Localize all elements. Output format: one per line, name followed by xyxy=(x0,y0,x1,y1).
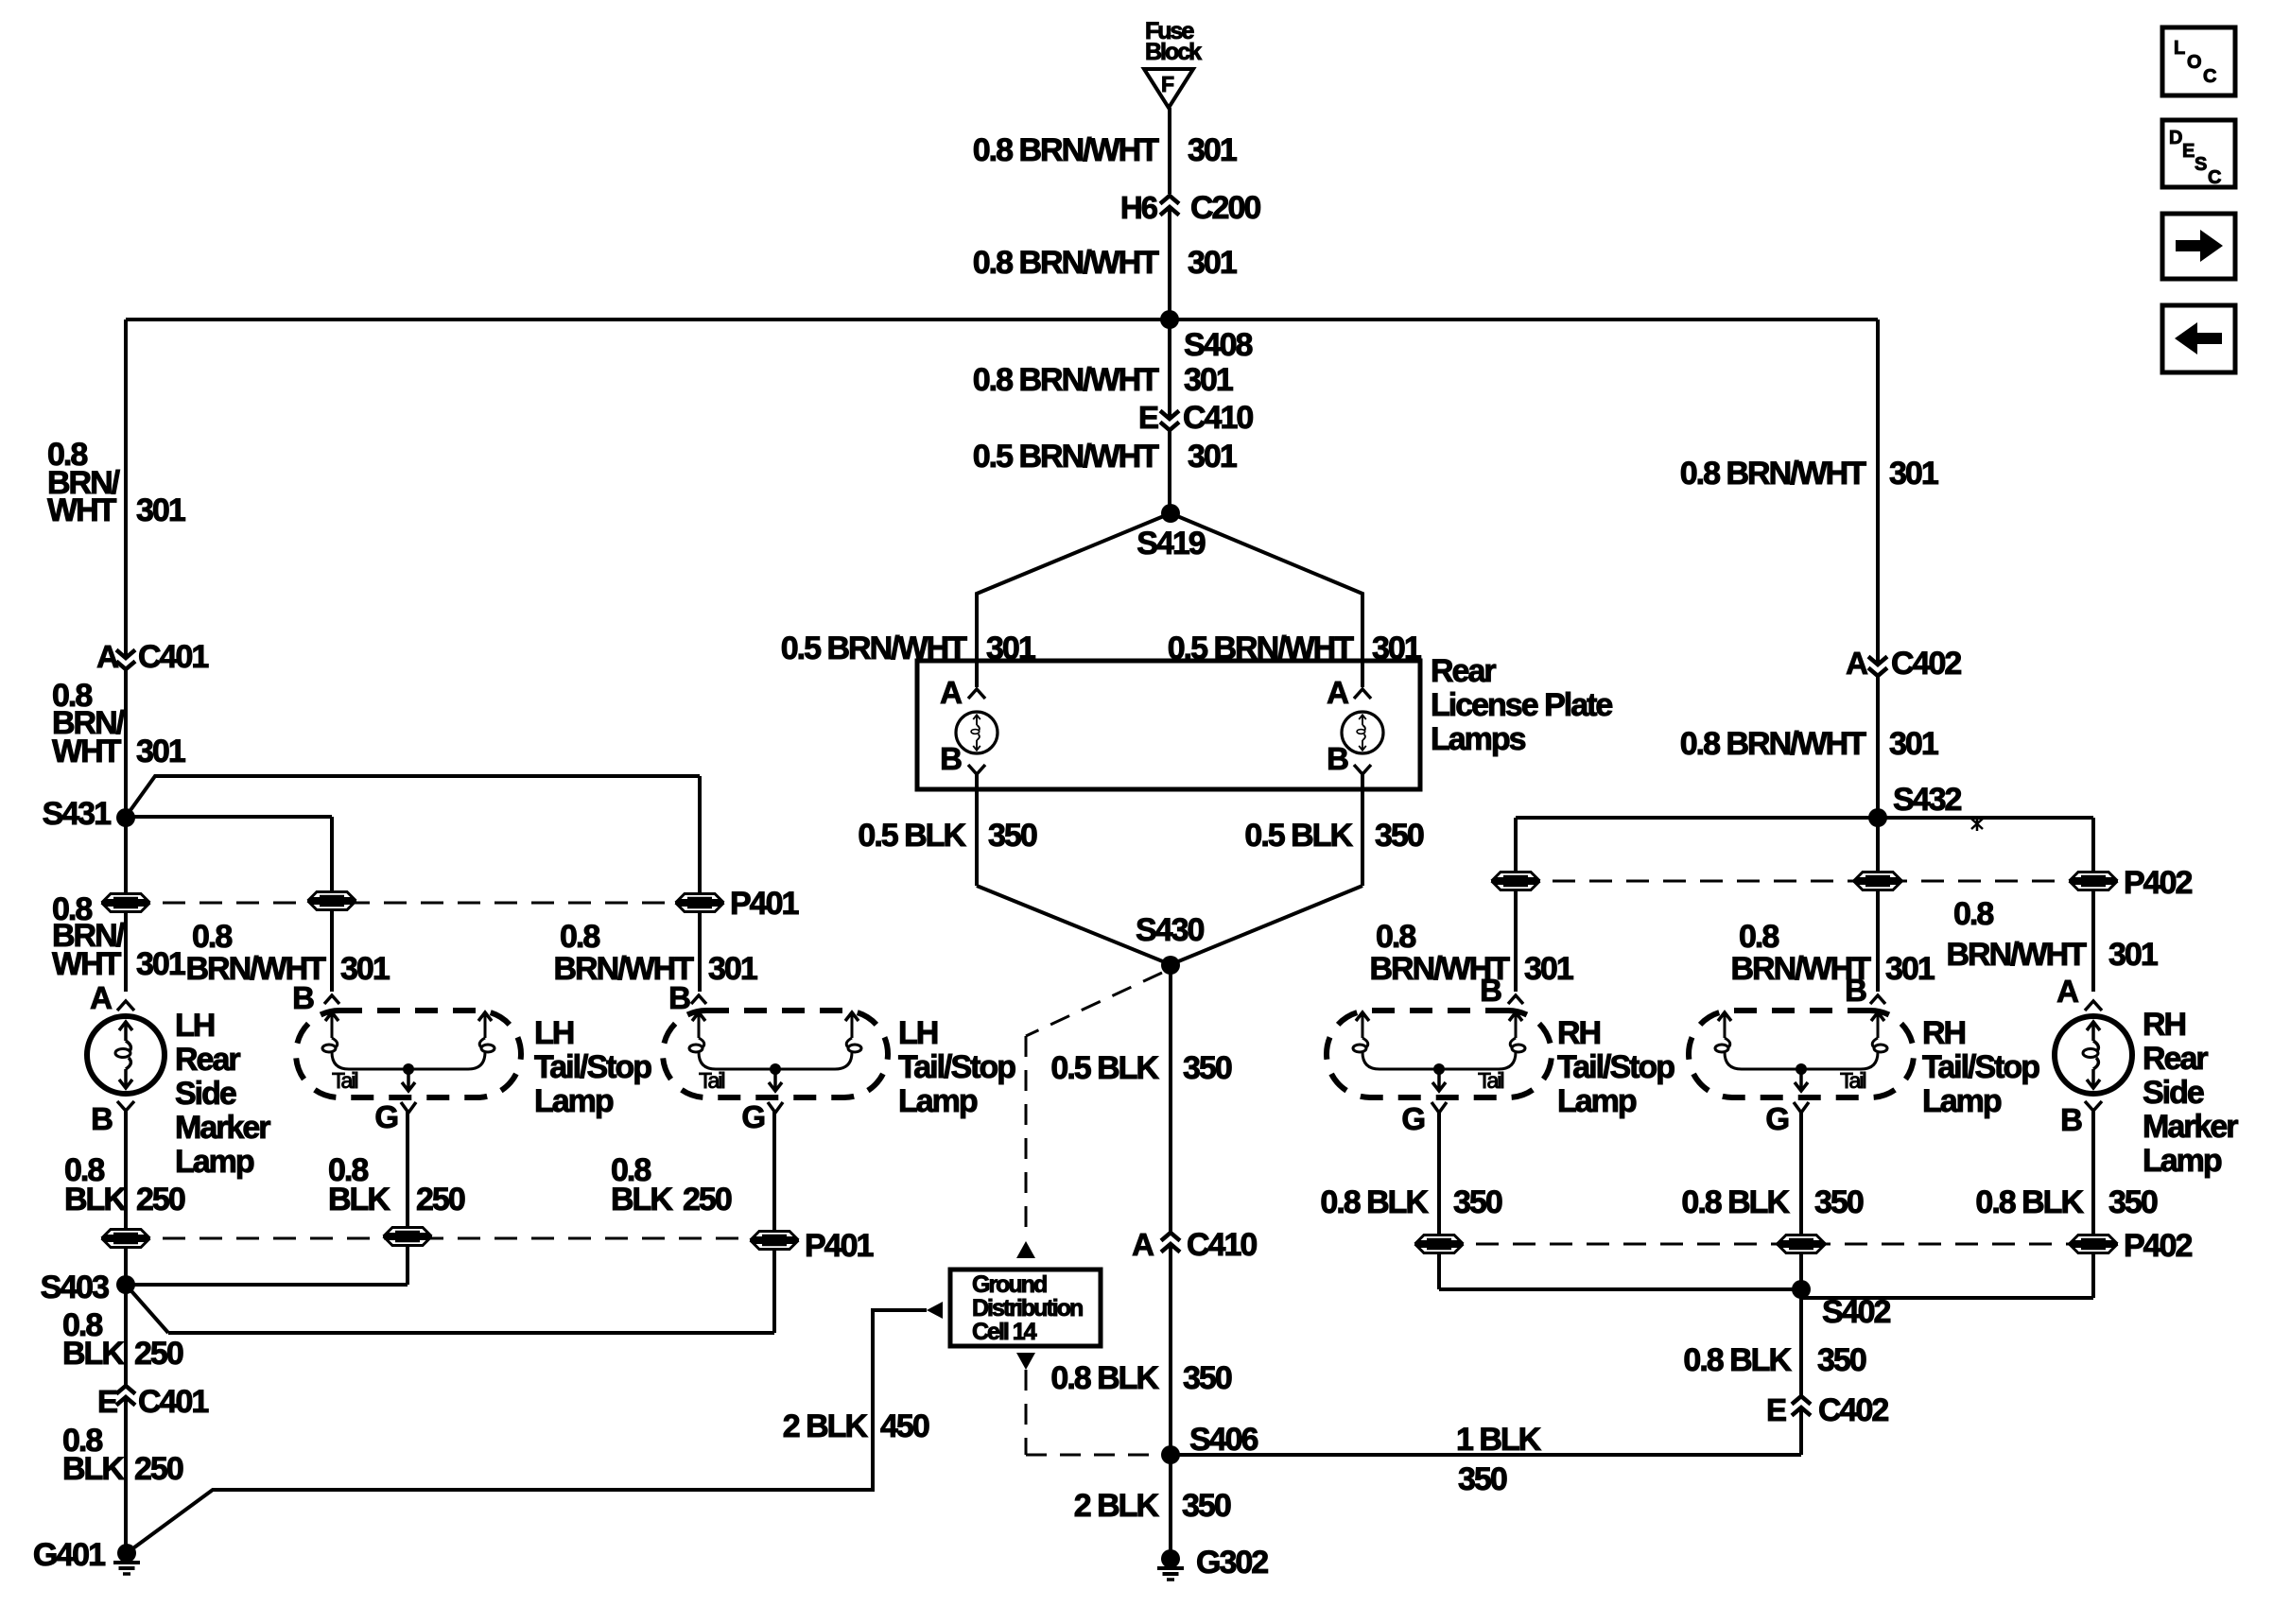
wire S408 bus to C401 left xyxy=(124,320,128,656)
svg-text:0.8 BLK: 0.8 BLK xyxy=(1320,1184,1429,1220)
svg-text:C: C xyxy=(2203,66,2216,87)
wire C410 to S406 xyxy=(1169,1246,1172,1455)
svg-text:C200: C200 xyxy=(1190,190,1260,226)
wire RH tail 2 G to S402 xyxy=(1799,1112,1803,1289)
svg-text:0.8 BRN/WHT: 0.8 BRN/WHT xyxy=(973,245,1159,281)
wire label 0.8 BLK 350 (RH tail 1 G) xyxy=(1320,1184,1501,1220)
LH tail/stop lamp 2 name xyxy=(898,1015,1015,1119)
wire label 0.8 BRN/WHT 301 (marker A) xyxy=(52,891,185,982)
footnote mark on S432 wire xyxy=(1971,817,1983,831)
svg-text:250: 250 xyxy=(683,1182,732,1218)
svg-text:C: C xyxy=(2208,167,2221,188)
wire C401 to S431 xyxy=(124,669,128,817)
svg-text:250: 250 xyxy=(136,1182,185,1218)
wire label 0.8 BRN/WHT 301 (RH marker) xyxy=(1946,896,2157,973)
svg-text:Lamp: Lamp xyxy=(898,1083,978,1119)
svg-text:G: G xyxy=(741,1099,764,1134)
connector C402 pin E xyxy=(1766,1392,1888,1428)
svg-text:0.5 BRN/WHT: 0.5 BRN/WHT xyxy=(973,439,1159,475)
svg-text:G: G xyxy=(1401,1101,1424,1136)
wire label 0.8 BLK 350 (S402-C402) xyxy=(1683,1342,1865,1378)
svg-text:Side: Side xyxy=(175,1076,236,1112)
wire label 0.5 BRN/WHT 301 (C410-S419) xyxy=(973,439,1237,475)
svg-text:0.5 BLK: 0.5 BLK xyxy=(858,818,966,854)
svg-text:Lamp: Lamp xyxy=(175,1144,254,1180)
LH tail/stop lamp 1 xyxy=(292,980,521,1134)
svg-text:Cell 14: Cell 14 xyxy=(972,1319,1037,1345)
svg-text:350: 350 xyxy=(1182,1488,1231,1524)
svg-text:B: B xyxy=(91,1101,113,1136)
wire S431 branch to LH tail lamp 2 pin B xyxy=(126,776,700,992)
svg-text:BLK: BLK xyxy=(611,1182,673,1218)
wire S431 to LH side marker pin A xyxy=(124,817,128,992)
svg-text:301: 301 xyxy=(136,492,185,528)
wire S408 bus to C402 right xyxy=(1876,320,1880,663)
svg-text:Tail: Tail xyxy=(1478,1068,1503,1093)
svg-text:301: 301 xyxy=(1188,132,1237,168)
wire RH marker B to S402 xyxy=(1802,1111,2093,1298)
svg-text:O: O xyxy=(2187,52,2201,73)
svg-text:E: E xyxy=(97,1384,117,1419)
wire LH tail 1 G down xyxy=(126,1112,408,1285)
svg-text:1 BLK: 1 BLK xyxy=(1456,1422,1542,1458)
svg-text:P402: P402 xyxy=(2124,865,2192,901)
splice S431 xyxy=(43,796,135,832)
wire license left B to S430 xyxy=(977,774,1170,964)
wire S402 to C402 pin E xyxy=(1799,1289,1803,1396)
svg-text:0.8: 0.8 xyxy=(1953,896,1993,932)
svg-text:Distribution: Distribution xyxy=(972,1295,1083,1322)
svg-text:WHT: WHT xyxy=(52,734,122,769)
wire S432 to RH tail lamp 1 pin B xyxy=(1516,818,1878,992)
svg-text:0.5 BLK: 0.5 BLK xyxy=(1050,1050,1159,1086)
wire label 1 BLK 350 xyxy=(1456,1422,1542,1497)
svg-text:Tail: Tail xyxy=(1840,1068,1865,1093)
svg-text:301: 301 xyxy=(1184,362,1233,398)
svg-text:E: E xyxy=(1766,1392,1786,1427)
svg-text:A: A xyxy=(90,980,112,1015)
svg-text:D: D xyxy=(2169,128,2182,148)
connector C401 pin A xyxy=(96,639,208,675)
wire C410 to S419 xyxy=(1168,430,1171,513)
svg-text:H6: H6 xyxy=(1120,190,1158,225)
svg-text:S403: S403 xyxy=(41,1270,109,1305)
wire S403 to C401 pin E xyxy=(124,1285,128,1386)
svg-text:2 BLK: 2 BLK xyxy=(1074,1488,1160,1524)
wire S430 to C410 pin A xyxy=(1169,965,1172,1233)
RH tail/stop lamp 2 xyxy=(1689,973,1914,1136)
connector C401 pin E xyxy=(97,1384,208,1420)
svg-text:250: 250 xyxy=(416,1182,465,1218)
ground distribution cell 14 box xyxy=(950,1270,1101,1346)
svg-text:A: A xyxy=(1846,646,1867,681)
svg-text:350: 350 xyxy=(1183,1360,1232,1396)
svg-text:F: F xyxy=(1161,72,1174,96)
svg-text:350: 350 xyxy=(2108,1184,2158,1220)
rear license plate lamps name xyxy=(1431,653,1612,757)
svg-text:350: 350 xyxy=(1375,818,1424,854)
svg-text:301: 301 xyxy=(1188,439,1237,475)
svg-text:C410: C410 xyxy=(1187,1227,1257,1263)
wire label 0.8 BLK 250 (tail 1 G) xyxy=(328,1152,465,1218)
svg-text:S402: S402 xyxy=(1822,1294,1890,1330)
RH tail/stop lamp 2 name xyxy=(1922,1015,2039,1119)
svg-text:C401: C401 xyxy=(138,639,208,675)
svg-text:301: 301 xyxy=(2108,937,2158,973)
wire label 0.8 BRN/WHT 301 (LH tail 2) xyxy=(553,919,756,987)
svg-text:C401: C401 xyxy=(138,1384,208,1420)
svg-text:P401: P401 xyxy=(805,1228,873,1264)
wire fuse to S408 net 301 xyxy=(1168,108,1171,315)
grommet row dashed pass-through right upper xyxy=(1516,880,2093,883)
RH tail/stop lamp 1 xyxy=(1327,973,1552,1136)
grommet on RH tail 1 wire xyxy=(1491,872,1540,890)
grommet on marker ground wire xyxy=(101,1230,150,1248)
grommet row dashed pass-through right lower xyxy=(1439,1243,2093,1246)
svg-text:C402: C402 xyxy=(1818,1392,1888,1428)
svg-text:0.8 BRN/WHT: 0.8 BRN/WHT xyxy=(1680,726,1866,762)
main bus wire 301 across top xyxy=(126,318,1878,321)
wire label 0.5 BRN/WHT 301 (right branch) xyxy=(1168,631,1421,666)
svg-text:350: 350 xyxy=(1458,1461,1507,1497)
splice S403 xyxy=(41,1270,135,1305)
svg-text:Tail: Tail xyxy=(332,1068,357,1093)
svg-text:Marker: Marker xyxy=(2143,1109,2238,1145)
wire LH tail 2 G down to S403 xyxy=(126,1112,774,1333)
connector C410 pin E xyxy=(1138,400,1253,436)
svg-text:LH: LH xyxy=(898,1015,938,1051)
svg-text:Tail/Stop: Tail/Stop xyxy=(898,1049,1015,1085)
wire label 0.8 BRN/WHT 301 right upper xyxy=(1680,456,1938,492)
svg-text:B: B xyxy=(292,980,314,1015)
svg-text:0.8 BRN/WHT: 0.8 BRN/WHT xyxy=(973,132,1159,168)
svg-text:0.8 BLK: 0.8 BLK xyxy=(1975,1184,2084,1220)
wire label 0.8 BLK 250 (tail 2 G) xyxy=(611,1152,732,1218)
wire label 2 BLK 450 xyxy=(783,1408,929,1444)
svg-text:Tail/Stop: Tail/Stop xyxy=(1922,1049,2039,1085)
wire label 0.8 BLK 250 (S403-C401) xyxy=(62,1307,183,1372)
svg-text:Marker: Marker xyxy=(175,1110,270,1146)
svg-text:Tail: Tail xyxy=(699,1068,724,1093)
wire label 0.8 BRN/WHT 301 (LH tail 1) xyxy=(185,919,389,987)
wire label 0.5 BLK 350 (left) xyxy=(858,818,1036,854)
svg-text:350: 350 xyxy=(988,818,1037,854)
forward arrow box xyxy=(2162,214,2235,279)
splice S419 xyxy=(1136,504,1205,561)
wire label 0.5 BLK 350 (right) xyxy=(1244,818,1423,854)
svg-text:301: 301 xyxy=(708,951,757,987)
DESC reference box xyxy=(2162,120,2235,188)
RH tail/stop lamp 1 name xyxy=(1557,1015,1674,1119)
svg-text:S430: S430 xyxy=(1136,912,1204,948)
svg-text:B: B xyxy=(668,980,690,1015)
svg-text:L: L xyxy=(2174,38,2185,59)
svg-text:G401: G401 xyxy=(33,1537,105,1573)
wire S419 to license lamp left xyxy=(977,513,1171,687)
fuse block feed F xyxy=(1144,18,1202,108)
splice S432 xyxy=(1868,782,1961,827)
wire label 0.8 BLK 350 (RH tail 2 G) xyxy=(1681,1184,1863,1220)
LH rear side marker lamp name xyxy=(175,1008,270,1180)
svg-text:BLK: BLK xyxy=(328,1182,390,1218)
connector C402 pin A xyxy=(1846,646,1961,682)
svg-text:0.5 BLK: 0.5 BLK xyxy=(1244,818,1353,854)
svg-text:RH: RH xyxy=(2143,1007,2186,1043)
svg-text:2 BLK: 2 BLK xyxy=(783,1408,869,1444)
dashed ground reference S430 to cell xyxy=(1016,973,1162,1258)
svg-text:BLK: BLK xyxy=(62,1451,125,1487)
wire S419 to license lamp right xyxy=(1171,513,1362,687)
svg-text:C410: C410 xyxy=(1183,400,1253,436)
ground G302 xyxy=(1157,1545,1268,1581)
svg-text:Rear: Rear xyxy=(2143,1041,2208,1077)
wire S408 to C410 xyxy=(1168,320,1171,417)
svg-text:Rear: Rear xyxy=(1431,653,1496,689)
svg-text:BLK: BLK xyxy=(62,1336,125,1372)
wire label 0.5 BRN/WHT 301 (left branch) xyxy=(781,631,1035,666)
svg-text:301: 301 xyxy=(1885,951,1935,987)
svg-text:350: 350 xyxy=(1814,1184,1864,1220)
wire label 0.8 BLK 350 (C410-S406) xyxy=(1050,1360,1231,1396)
svg-text:Lamp: Lamp xyxy=(1557,1083,1637,1119)
svg-text:301: 301 xyxy=(340,951,390,987)
grommet on RH tail 2 wire xyxy=(1853,872,1902,890)
svg-text:Lamps: Lamps xyxy=(1431,721,1526,757)
svg-text:0.8: 0.8 xyxy=(1739,919,1778,955)
svg-text:450: 450 xyxy=(880,1408,929,1444)
wire label 0.8 BRN/WHT 301 (RH tail 1) xyxy=(1369,919,1572,987)
svg-text:P401: P401 xyxy=(730,886,798,922)
svg-text:301: 301 xyxy=(136,734,185,769)
svg-text:0.8 BRN/WHT: 0.8 BRN/WHT xyxy=(973,362,1159,398)
grommet P401 on LH tail lamp 2 wire xyxy=(675,886,798,922)
wire label 0.8 BRN/WHT 301 (S408-C410) xyxy=(973,362,1233,398)
wire marker B to S403 xyxy=(124,1111,128,1285)
svg-text:A: A xyxy=(96,639,118,674)
grommet P402 on RH marker ground wire xyxy=(2069,1228,2192,1264)
svg-text:License Plate: License Plate xyxy=(1431,687,1612,723)
wire label 0.8 BRN/WHT 301 (C401-S431) xyxy=(52,678,185,769)
grommet P402 on RH marker wire xyxy=(2069,865,2192,901)
svg-text:0.8: 0.8 xyxy=(192,919,232,955)
wire 2 BLK 450 to ground distribution xyxy=(130,1310,927,1550)
svg-text:Side: Side xyxy=(2143,1075,2204,1111)
grommet on LH tail lamp 1 wire xyxy=(307,892,356,910)
svg-text:A: A xyxy=(1132,1227,1154,1262)
svg-text:350: 350 xyxy=(1183,1050,1232,1086)
ground G401 xyxy=(33,1537,140,1574)
dashed ground reference cell to S406 xyxy=(1016,1353,1163,1455)
svg-text:E: E xyxy=(2182,141,2195,162)
wire label 0.8 BRN/WHT 301 (RH tail 2) xyxy=(1730,919,1934,987)
svg-text:Tail/Stop: Tail/Stop xyxy=(534,1049,651,1085)
svg-text:E: E xyxy=(1138,400,1158,435)
svg-text:B: B xyxy=(1845,973,1866,1008)
svg-text:LH: LH xyxy=(534,1015,574,1051)
wire S432 to RH tail lamp 2 pin B xyxy=(1876,818,1880,992)
svg-text:RH: RH xyxy=(1922,1015,1966,1051)
wire S432 to RH side marker pin A xyxy=(1878,818,2093,992)
wire RH tail 1 G to S402 xyxy=(1439,1112,1801,1289)
back arrow box xyxy=(2162,305,2235,372)
svg-text:301: 301 xyxy=(1889,456,1938,492)
svg-text:350: 350 xyxy=(1817,1342,1866,1378)
svg-text:WHT: WHT xyxy=(47,492,117,528)
LOC reference box xyxy=(2162,27,2235,95)
connector C410 pin A xyxy=(1132,1227,1257,1263)
svg-text:BLK: BLK xyxy=(64,1182,127,1218)
grommet row dashed pass-through left upper xyxy=(126,902,700,905)
svg-text:350: 350 xyxy=(1453,1184,1502,1220)
grommet on tail 1 ground wire xyxy=(383,1228,432,1246)
svg-text:Rear: Rear xyxy=(175,1042,240,1078)
svg-text:A: A xyxy=(1327,675,1348,710)
svg-text:S406: S406 xyxy=(1189,1422,1258,1458)
svg-text:A: A xyxy=(2056,974,2078,1009)
license lamp right bulb xyxy=(1327,675,1383,776)
svg-text:WHT: WHT xyxy=(52,946,122,982)
svg-text:301: 301 xyxy=(1188,245,1237,281)
svg-text:250: 250 xyxy=(134,1336,183,1372)
arrow into ground distribution cell xyxy=(927,1302,943,1319)
splice S408 xyxy=(1160,310,1252,363)
svg-text:Tail/Stop: Tail/Stop xyxy=(1557,1049,1674,1085)
svg-text:Block: Block xyxy=(1145,39,1202,65)
LH tail/stop lamp 2 xyxy=(663,980,888,1134)
grommet P401 on tail 2 ground wire xyxy=(750,1228,873,1264)
svg-text:Lamp: Lamp xyxy=(2143,1143,2222,1179)
svg-text:S: S xyxy=(2195,154,2207,175)
svg-text:BRN/WHT: BRN/WHT xyxy=(1946,937,2087,973)
rear license plate lamps box xyxy=(917,661,1420,789)
wire S406 to ground G302 xyxy=(1169,1455,1172,1559)
wire C401 to ground G401 xyxy=(124,1399,128,1553)
wire S431 to LH tail lamp 1 pin B xyxy=(126,817,332,992)
svg-text:G: G xyxy=(374,1099,397,1134)
wire label 0.8 BLK 250 (marker B) xyxy=(64,1152,185,1218)
svg-text:P402: P402 xyxy=(2124,1228,2192,1264)
wire label 0.8 BRN/WHT 301 (C402-S432) xyxy=(1680,726,1938,762)
grommet on marker wire xyxy=(101,894,150,912)
svg-text:RH: RH xyxy=(1557,1015,1601,1051)
svg-text:B: B xyxy=(940,741,962,776)
svg-text:S419: S419 xyxy=(1136,526,1205,561)
svg-text:0.8 BLK: 0.8 BLK xyxy=(1683,1342,1792,1378)
svg-text:B: B xyxy=(2060,1102,2082,1137)
grommet row dashed pass-through left lower xyxy=(126,1237,774,1240)
wire label 0.8 BRN/WHT 301 (C200-S408) xyxy=(973,245,1237,281)
svg-text:S408: S408 xyxy=(1184,327,1252,363)
LH rear side marker lamp xyxy=(87,980,165,1136)
wire C402 to S432 xyxy=(1876,676,1880,818)
svg-text:301: 301 xyxy=(1889,726,1938,762)
LH tail/stop lamp 1 name xyxy=(534,1015,651,1119)
svg-text:Ground: Ground xyxy=(972,1271,1047,1298)
splice S406 xyxy=(1161,1422,1258,1464)
svg-text:LH: LH xyxy=(175,1008,215,1044)
RH rear side marker lamp name xyxy=(2143,1007,2238,1179)
grommet on RH tail 2 ground wire xyxy=(1777,1235,1826,1253)
svg-text:0.8: 0.8 xyxy=(560,919,599,955)
RH rear side marker lamp xyxy=(2055,974,2132,1137)
splice S402 xyxy=(1792,1280,1890,1330)
splice S430 xyxy=(1136,912,1204,975)
grommet on RH tail 1 ground wire xyxy=(1414,1235,1464,1253)
wire label 0.8 BLK 250 (C401-G401) xyxy=(62,1423,183,1487)
license lamp left bulb xyxy=(940,675,998,776)
svg-text:B: B xyxy=(1480,973,1501,1008)
wire license right B to S430 xyxy=(1171,774,1362,964)
svg-text:A: A xyxy=(940,675,962,710)
svg-text:301: 301 xyxy=(1524,951,1573,987)
svg-text:250: 250 xyxy=(134,1451,183,1487)
wire label 0.8 BRN/WHT 301 (fuse-C200) xyxy=(973,132,1237,168)
wire label 0.8 BRN/WHT 301 left upper xyxy=(47,437,185,528)
svg-text:S432: S432 xyxy=(1893,782,1961,818)
svg-text:S431: S431 xyxy=(43,796,111,832)
svg-text:0.8 BLK: 0.8 BLK xyxy=(1050,1360,1159,1396)
wire label 0.5 BLK 350 (S430-C410) xyxy=(1050,1050,1231,1086)
svg-text:301: 301 xyxy=(136,946,185,982)
svg-text:B: B xyxy=(1327,741,1348,776)
svg-text:C402: C402 xyxy=(1891,646,1961,682)
svg-text:0.8: 0.8 xyxy=(1376,919,1415,955)
svg-text:G: G xyxy=(1765,1101,1788,1136)
svg-text:G302: G302 xyxy=(1196,1545,1268,1581)
svg-text:0.8 BRN/WHT: 0.8 BRN/WHT xyxy=(1680,456,1866,492)
wire label 2 BLK 350 xyxy=(1074,1488,1231,1524)
svg-text:Lamp: Lamp xyxy=(534,1083,614,1119)
svg-text:Lamp: Lamp xyxy=(1922,1083,2002,1119)
wire 1 BLK 350 S406 to C402 xyxy=(1171,1409,1801,1455)
wire label 0.8 BLK 350 (RH marker B) xyxy=(1975,1184,2157,1220)
connector C200 pin H6 xyxy=(1120,190,1261,226)
svg-text:0.8 BLK: 0.8 BLK xyxy=(1681,1184,1790,1220)
